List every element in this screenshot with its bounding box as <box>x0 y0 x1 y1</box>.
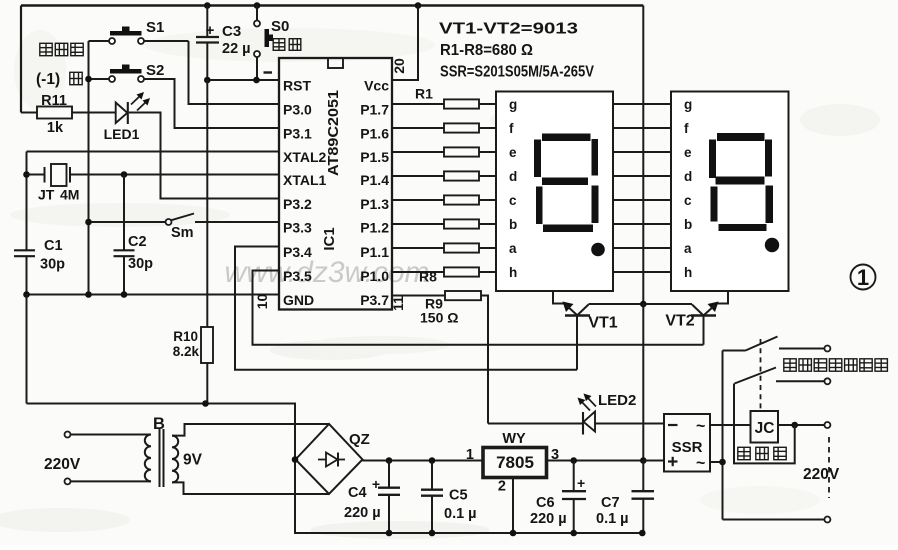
svg-text:0.1 µ: 0.1 µ <box>444 506 477 522</box>
resistor R1 <box>392 103 444 105</box>
terminal 220V line input bottom <box>65 478 71 484</box>
label contactor <box>738 447 750 459</box>
wire P3.5 to VT2 base <box>253 271 704 345</box>
display DS1 digit segments <box>542 134 591 142</box>
svg-text:30p: 30p <box>40 257 65 273</box>
svg-text:XTAL2: XTAL2 <box>283 149 327 165</box>
switch S2 (-1 key) <box>89 78 110 80</box>
wire segment row 6 between displays <box>613 223 671 225</box>
svg-text:S0: S0 <box>271 18 289 35</box>
svg-text:SSR: SSR <box>672 439 703 456</box>
node GND-C1 <box>23 291 30 298</box>
relay contact upper <box>723 350 746 352</box>
svg-text:+: + <box>206 22 215 39</box>
node bridge minus to ground <box>292 456 299 463</box>
terminal 220V line input top <box>65 432 71 438</box>
wire keys common <box>88 41 90 295</box>
label steamer power line <box>784 359 796 371</box>
svg-text:Vcc: Vcc <box>364 78 389 94</box>
svg-text:VT2: VT2 <box>665 313 694 330</box>
wire 7805 pin2 to ground <box>512 478 514 534</box>
svg-text:QZ: QZ <box>349 431 370 448</box>
node Vcc-S0 <box>254 2 261 9</box>
svg-text:22 µ: 22 µ <box>222 41 251 57</box>
node GND-C2 <box>121 291 128 298</box>
wire GND down to ground bus <box>26 295 28 404</box>
svg-text:Sm: Sm <box>171 225 194 241</box>
svg-text:R11: R11 <box>41 93 67 109</box>
svg-text:P1.0: P1.0 <box>360 268 389 284</box>
node Sm common <box>85 219 92 226</box>
wire 7805 output 5V <box>547 460 644 462</box>
wire secondary bottom to bridge <box>172 482 329 494</box>
svg-text:+: + <box>372 476 380 492</box>
svg-text:WY: WY <box>502 431 526 447</box>
svg-text:AT89C2051: AT89C2051 <box>326 90 342 176</box>
wire ground bus <box>27 404 643 534</box>
svg-text:1k: 1k <box>47 120 64 136</box>
wire Vcc column to 5V node <box>642 304 644 461</box>
wire 220V bottom <box>723 519 825 521</box>
svg-text:2: 2 <box>498 479 506 495</box>
resistor R8 <box>392 271 444 273</box>
transformer B primary <box>71 434 152 436</box>
svg-text:d: d <box>684 169 692 184</box>
wire VT2 collector <box>643 303 692 305</box>
wire Vcc drop to display common node <box>642 6 644 305</box>
svg-text:a: a <box>684 241 692 256</box>
svg-text:c: c <box>509 193 517 208</box>
transformer B core <box>159 429 161 487</box>
wire S2 to P3.1 <box>144 79 279 128</box>
svg-text:f: f <box>684 121 689 136</box>
svg-text:e: e <box>509 145 517 160</box>
svg-text:P1.2: P1.2 <box>360 220 389 236</box>
terminal 220V right top <box>824 422 830 428</box>
svg-text:4M: 4M <box>60 187 79 203</box>
transistor VT1 <box>553 291 564 304</box>
node JC-contact <box>791 422 798 429</box>
svg-text:RST: RST <box>283 78 311 94</box>
wire LED1 to P3.2 <box>129 113 279 199</box>
svg-text:SSR=S201S05M/5A-265V: SSR=S201S05M/5A-265V <box>440 64 594 81</box>
node Vcc-C3 <box>204 2 211 9</box>
svg-text:220 µ: 220 µ <box>344 505 381 521</box>
terminal contact lower <box>824 378 830 384</box>
svg-text:P3.4: P3.4 <box>283 244 312 260</box>
svg-text:P3.2: P3.2 <box>283 196 312 212</box>
label set-key <box>40 43 52 55</box>
relay contact lower <box>735 368 777 384</box>
svg-text:e: e <box>684 145 692 160</box>
svg-text:1: 1 <box>466 447 474 463</box>
node GND-keys <box>85 291 92 298</box>
wire S1 to P3.0 <box>189 41 280 104</box>
svg-text:d: d <box>509 169 517 184</box>
svg-text:b: b <box>684 217 692 232</box>
svg-text:JT: JT <box>38 187 55 203</box>
bridge rectifier QZ <box>296 424 363 494</box>
svg-text:P1.4: P1.4 <box>360 172 389 188</box>
capacitor C1 <box>14 249 35 251</box>
svg-text:P1.1: P1.1 <box>360 244 389 260</box>
resistor R9 <box>392 295 445 297</box>
svg-text:C4: C4 <box>348 485 367 501</box>
switch S1 (set key) <box>89 40 110 42</box>
capacitor C5 <box>429 457 436 464</box>
svg-text:R10: R10 <box>173 329 198 344</box>
node display common Vcc <box>640 301 647 308</box>
figure number 1 <box>851 265 876 290</box>
svg-text:+: + <box>577 475 585 491</box>
svg-text:C6: C6 <box>536 495 555 511</box>
svg-text:10: 10 <box>254 294 270 310</box>
svg-text:g: g <box>684 97 692 112</box>
svg-text:C1: C1 <box>44 238 63 254</box>
svg-text:h: h <box>509 265 517 280</box>
capacitor C3 <box>206 6 208 38</box>
svg-text:b: b <box>509 217 517 232</box>
op-amp IC1 AT89C2051 body <box>279 58 392 310</box>
svg-text:VT1-VT2=9013: VT1-VT2=9013 <box>439 21 578 38</box>
node S0-RST <box>253 77 260 84</box>
switch Sm <box>89 221 166 223</box>
svg-text:R8: R8 <box>419 269 437 285</box>
svg-text:1: 1 <box>857 265 869 290</box>
svg-text:g: g <box>509 97 517 112</box>
solid state relay SSR <box>664 414 710 472</box>
switch S0 (reset button) <box>256 6 258 21</box>
wire P3.4 to VT1 base <box>235 247 577 370</box>
terminal contact upper <box>824 346 830 352</box>
svg-text:h: h <box>684 265 692 280</box>
relay coil JC <box>751 411 779 443</box>
svg-text:c: c <box>684 193 692 208</box>
resistor R3 <box>392 151 444 153</box>
svg-text:11: 11 <box>390 296 406 311</box>
display DS2 decimal point <box>765 238 779 252</box>
capacitor C4 <box>386 457 393 464</box>
svg-text:R1-R8=680 Ω: R1-R8=680 Ω <box>440 42 533 59</box>
wire Vcc pin to rail <box>392 6 418 81</box>
LED LED1 <box>72 112 116 114</box>
svg-text:S1: S1 <box>146 19 164 36</box>
svg-text:P1.7: P1.7 <box>360 102 389 118</box>
wire XTAL2 <box>27 151 280 153</box>
wire JC to 220V terminal <box>778 424 824 426</box>
node Vcc-pin20 <box>415 2 422 9</box>
wire RST <box>207 79 279 81</box>
AC source 220V right <box>828 437 830 498</box>
svg-text:220V: 220V <box>44 456 81 473</box>
resistor R4 <box>392 175 444 177</box>
svg-text:C5: C5 <box>449 488 468 504</box>
wire segment row 8 between displays <box>613 271 671 273</box>
svg-text:220 µ: 220 µ <box>530 511 567 527</box>
display DS1 decimal point <box>591 243 605 257</box>
wire 5V to SSR plus <box>643 460 664 462</box>
capacitor C2 <box>123 175 125 251</box>
resistor R10 <box>206 80 208 327</box>
svg-text:JC: JC <box>755 420 775 437</box>
node SSR ac2 <box>719 459 726 466</box>
svg-text:7805: 7805 <box>496 453 534 472</box>
wire SSR ac2 stub <box>710 461 723 463</box>
svg-text:GND: GND <box>283 292 314 308</box>
wire left border Vcc drop to R11 <box>20 6 22 113</box>
wire segment row 2 between displays <box>613 127 671 129</box>
svg-text:~: ~ <box>696 455 705 472</box>
capacitor C7 <box>640 457 647 464</box>
node R10-ground <box>202 400 209 407</box>
wire segment row 1 between displays <box>613 103 671 105</box>
svg-text:30p: 30p <box>128 256 153 272</box>
regulator WY 7805 <box>483 448 547 478</box>
svg-text:LED1: LED1 <box>104 126 140 142</box>
svg-text:f: f <box>509 121 514 136</box>
svg-text:150 Ω: 150 Ω <box>420 310 458 326</box>
crystal JT 4M <box>26 152 28 251</box>
wire Vcc top rail <box>21 4 643 6</box>
svg-text:S2: S2 <box>146 62 164 79</box>
transformer B secondary <box>172 436 178 483</box>
svg-text:P3.3: P3.3 <box>283 220 312 236</box>
node S2 common <box>85 76 92 83</box>
svg-text:(-1): (-1) <box>36 71 60 88</box>
svg-text:P3.7: P3.7 <box>360 292 389 308</box>
wire rectifier output <box>363 460 484 462</box>
resistor R11 <box>21 112 37 114</box>
svg-text:XTAL1: XTAL1 <box>283 172 327 188</box>
wire segment row 4 between displays <box>613 175 671 177</box>
svg-text:a: a <box>509 241 517 256</box>
svg-text:~: ~ <box>696 418 705 435</box>
resistor R5 <box>392 199 444 201</box>
svg-text:C2: C2 <box>128 234 147 250</box>
wire segment row 5 between displays <box>613 199 671 201</box>
display DS2 body <box>671 92 789 292</box>
svg-text:8.2k: 8.2k <box>173 344 200 359</box>
resistor R2 <box>392 127 444 129</box>
node crystal-C2 <box>121 171 128 178</box>
svg-text:VT1: VT1 <box>588 315 617 332</box>
wire segment row 3 between displays <box>613 151 671 153</box>
resistor R6 <box>392 223 444 225</box>
wire VT1 collector <box>589 303 644 305</box>
svg-text:P3.5: P3.5 <box>283 268 312 284</box>
svg-text:P3.1: P3.1 <box>283 126 312 142</box>
terminal 220V right bottom <box>824 517 830 523</box>
svg-text:P3.0: P3.0 <box>283 102 312 118</box>
LED LED2 <box>488 423 583 425</box>
svg-text:P1.5: P1.5 <box>360 149 389 165</box>
svg-text:P1.3: P1.3 <box>360 196 389 212</box>
display DS1 body <box>496 92 613 292</box>
svg-text:LED2: LED2 <box>598 392 636 409</box>
svg-text:C7: C7 <box>601 495 620 511</box>
wire secondary top to bridge <box>172 424 329 436</box>
svg-text:20: 20 <box>391 58 407 74</box>
wire SSR ac1 to JC coil <box>710 424 751 426</box>
svg-text:C3: C3 <box>222 23 241 40</box>
svg-text:IC1: IC1 <box>321 227 338 250</box>
node C3-RST <box>204 77 211 84</box>
svg-text:0.1 µ: 0.1 µ <box>596 511 629 527</box>
wire lower contact to JC node <box>734 384 795 464</box>
svg-text:P1.6: P1.6 <box>360 126 389 142</box>
display DS2 digit segments <box>717 133 765 141</box>
relay mechanical link <box>760 339 762 410</box>
capacitor C6 <box>570 457 577 464</box>
svg-text:220V: 220V <box>803 466 840 483</box>
transistor VT2 <box>717 291 728 304</box>
wire SSR ac2 riser <box>722 462 724 520</box>
wire GND pin10 <box>27 294 280 296</box>
resistor R7 <box>392 247 444 249</box>
svg-text:9V: 9V <box>183 452 203 469</box>
svg-text:R1: R1 <box>415 86 433 102</box>
wire segment row 7 between displays <box>613 247 671 249</box>
svg-text:B: B <box>153 415 165 433</box>
